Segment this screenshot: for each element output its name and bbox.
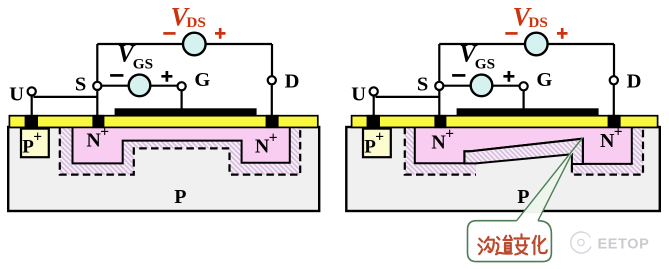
- wire: U down to body contact (right): [373, 91, 375, 117]
- N+ source / tapered channel / N+ drain pink region (right): [415, 127, 632, 164]
- depletion dashed boundary (left): [60, 127, 300, 175]
- svg-text:DS: DS: [528, 14, 547, 31]
- svg-text:GS: GS: [133, 56, 153, 73]
- depletion hatch drain side (right): [572, 128, 643, 175]
- contact D (right): [608, 115, 621, 128]
- svg-text:+: +: [445, 126, 454, 143]
- svg-text:GS: GS: [475, 56, 495, 73]
- gate electrode bar (left): [115, 108, 257, 116]
- voltage source VGS (right): [471, 75, 493, 97]
- svg-text:U: U: [351, 83, 366, 105]
- voltage source VDS (left): [183, 33, 206, 56]
- wire: S to G (left): [97, 85, 181, 87]
- svg-text:+: +: [614, 124, 623, 141]
- wire: S down to source contact (left): [96, 86, 98, 117]
- wire: G down to gate (left): [181, 86, 183, 110]
- wire: U to S line (right): [376, 96, 440, 98]
- svg-text:S: S: [75, 74, 86, 96]
- contact D (left): [266, 115, 279, 128]
- svg-text:P: P: [517, 186, 529, 208]
- depletion hatch region (left): [60, 128, 300, 175]
- voltage source VDS (right): [525, 33, 548, 56]
- terminal D (left): [268, 76, 276, 84]
- wire: U to S line (left): [34, 96, 98, 98]
- annotation line to pinch-off point: [517, 138, 583, 221]
- text 沟道变化 (drawn strokes): [478, 234, 546, 254]
- P+ region (right): [363, 129, 391, 158]
- svg-text:P: P: [174, 186, 186, 208]
- terminal U (right): [370, 87, 378, 95]
- wire: G down to gate (right): [522, 86, 524, 110]
- char 沟: [478, 237, 494, 254]
- svg-text:+: +: [375, 129, 384, 146]
- wire: S down to source contact (right): [438, 86, 440, 117]
- wire: top VDS loop (right): [439, 44, 614, 82]
- callout box 沟道变化: [468, 221, 552, 262]
- wire: S to G (right): [439, 85, 523, 87]
- plus sign VGS (left): [161, 71, 172, 82]
- terminal S (right): [435, 82, 443, 90]
- voltage source VGS (left): [129, 75, 151, 97]
- depletion hatch source side (right): [405, 128, 476, 175]
- contact S (right): [434, 115, 446, 128]
- terminal S (left): [93, 82, 101, 90]
- callout tail fill: [523, 138, 582, 213]
- wire: top VDS loop (left): [97, 44, 272, 82]
- oxide strip (right): [352, 116, 658, 128]
- contact U (left): [25, 115, 38, 128]
- plus sign VDS (right): [557, 28, 568, 39]
- P+ region (left): [21, 129, 49, 158]
- annotation line to channel step: [538, 155, 571, 221]
- svg-text:+: +: [100, 124, 109, 141]
- svg-text:S: S: [417, 74, 428, 96]
- depletion dashed boundary drain side (right): [572, 127, 643, 175]
- char 变: [514, 234, 529, 254]
- char 道: [496, 236, 512, 255]
- svg-text:EETOP: EETOP: [598, 236, 650, 252]
- svg-text:+: +: [269, 130, 278, 147]
- contact U (right): [367, 115, 380, 128]
- contact S (left): [92, 115, 104, 128]
- minus sign VDS (right): [505, 32, 517, 35]
- minus sign VGS (right): [452, 74, 465, 77]
- svg-text:DS: DS: [186, 14, 205, 31]
- minus sign VGS (left): [110, 74, 123, 77]
- char 化: [533, 236, 547, 254]
- EETOP watermark icon: [571, 232, 591, 253]
- svg-text:G: G: [536, 69, 552, 91]
- plus sign VDS (left): [215, 28, 226, 39]
- terminal U (left): [28, 87, 36, 95]
- minus sign VDS (left): [163, 32, 175, 35]
- substrate P (right): [346, 127, 660, 211]
- oxide strip (left): [9, 116, 317, 128]
- svg-text:U: U: [9, 83, 24, 105]
- gate electrode bar (right): [457, 108, 599, 116]
- terminal G (right): [520, 82, 528, 90]
- svg-text:N: N: [600, 130, 615, 152]
- substrate P (left): [8, 127, 319, 211]
- svg-text:N: N: [86, 130, 101, 152]
- svg-text:D: D: [285, 70, 300, 92]
- wire: D down to drain contact (left): [271, 80, 273, 117]
- svg-text:N: N: [255, 136, 270, 158]
- svg-text:G: G: [194, 69, 210, 91]
- terminal G (left): [178, 82, 186, 90]
- wire: D down to drain contact (right): [613, 80, 615, 117]
- depletion hatch channel wedge (right): [464, 139, 583, 164]
- plus sign VGS (right): [503, 71, 514, 82]
- channel wedge outline (right): [464, 139, 583, 164]
- svg-text:N: N: [431, 132, 446, 154]
- N+ source / channel / N+ drain pink region (left): [73, 127, 290, 164]
- svg-text:+: +: [33, 129, 42, 146]
- depletion dashed boundary source side (right): [405, 127, 476, 175]
- svg-text:D: D: [627, 70, 642, 92]
- wire: U down to body contact (left): [31, 91, 33, 117]
- terminal D (right): [610, 76, 618, 84]
